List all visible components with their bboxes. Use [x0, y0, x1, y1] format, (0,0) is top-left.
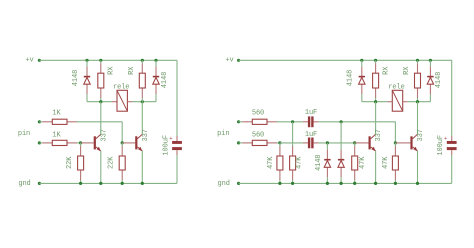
svg-text:1K: 1K — [52, 132, 61, 140]
svg-text:+v: +v — [25, 56, 33, 64]
svg-text:4148: 4148 — [315, 155, 323, 171]
svg-text:4148: 4148 — [161, 72, 169, 88]
svg-text:RX: RX — [128, 66, 136, 75]
svg-text:1uF: 1uF — [305, 131, 317, 139]
svg-text:100uF: 100uF — [162, 135, 170, 156]
svg-text:560: 560 — [252, 132, 264, 140]
svg-text:22K: 22K — [108, 156, 116, 169]
svg-text:1K: 1K — [52, 110, 61, 118]
svg-text:22K: 22K — [66, 156, 74, 169]
svg-text:RX: RX — [403, 66, 411, 75]
svg-text:RX: RX — [108, 66, 116, 75]
svg-text:gnd: gnd — [18, 180, 30, 188]
svg-text:100uF: 100uF — [437, 135, 445, 156]
svg-text:47K: 47K — [359, 156, 367, 169]
svg-text:337: 337 — [375, 129, 383, 141]
svg-text:gnd: gnd — [218, 180, 230, 188]
svg-text:47K: 47K — [267, 156, 275, 169]
svg-text:RX: RX — [382, 66, 390, 75]
svg-text:47K: 47K — [295, 156, 303, 169]
svg-text:4148: 4148 — [346, 70, 354, 86]
svg-text:337: 337 — [142, 129, 150, 141]
svg-text:+v: +v — [225, 56, 233, 64]
svg-text:rele: rele — [388, 83, 404, 91]
svg-text:337: 337 — [100, 129, 108, 141]
svg-text:4148: 4148 — [72, 70, 80, 86]
svg-text:1uF: 1uF — [305, 109, 317, 117]
svg-text:4148: 4148 — [435, 72, 443, 88]
svg-text:pin: pin — [217, 130, 229, 138]
svg-text:560: 560 — [252, 110, 264, 118]
svg-text:rele: rele — [113, 83, 129, 91]
svg-text:337: 337 — [417, 129, 425, 141]
svg-text:47K: 47K — [382, 156, 390, 169]
svg-text:pin: pin — [18, 130, 30, 138]
